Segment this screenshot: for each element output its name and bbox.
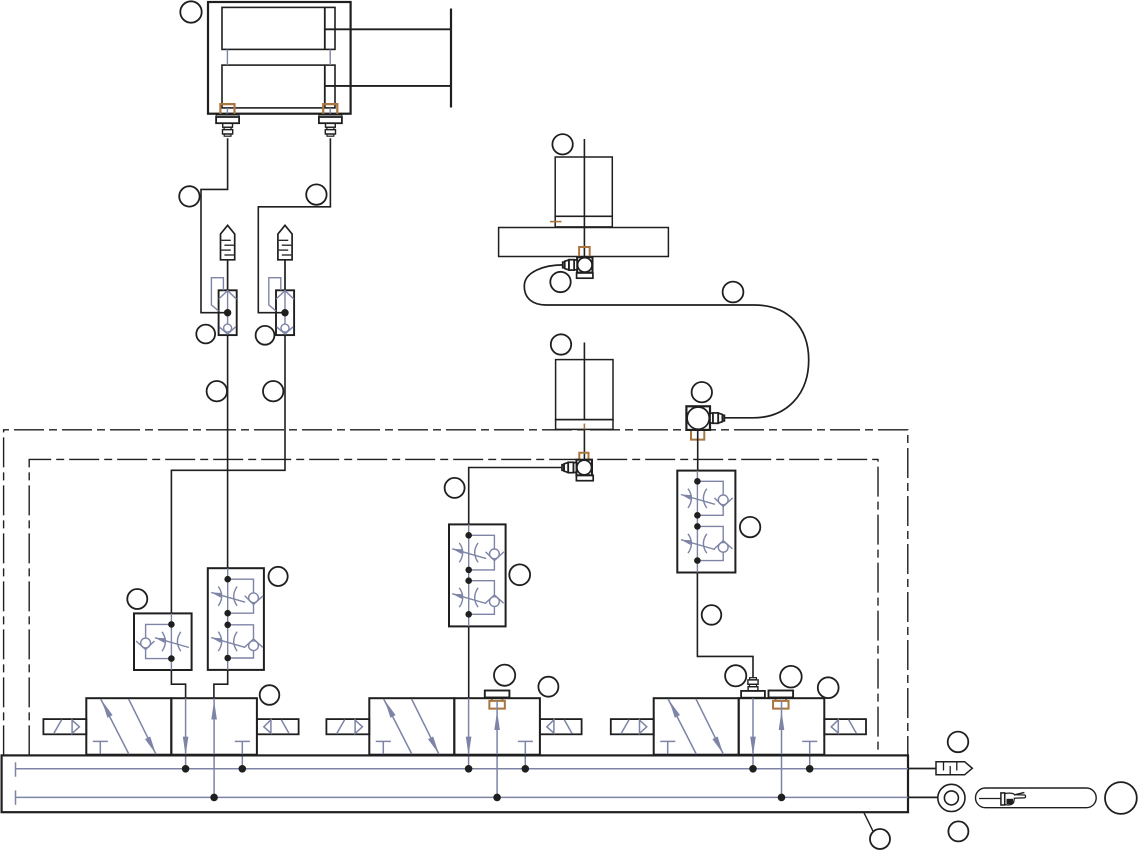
cylinder CYL1 piston rods and yoke plate [325,9,451,108]
wire bus1 to silencer S3 [908,768,936,770]
CYL2 port bracket [579,247,590,257]
CYL1 right port push-in fitting F2 [319,115,342,136]
junction dots on bus 1 [182,765,814,773]
elbow fitting EL1 under CYL2 plate [563,257,593,278]
wire FC3 to valve V2 port A [468,626,470,698]
CYL1 left port thread bracket [220,104,234,114]
CYL1 right port thread bracket [323,104,337,114]
outer enclosure boundary (dash-dot) [4,430,908,756]
wire CYL1 left port to quick-exhaust valve QE1 [201,138,228,312]
blanking plug P2 on valve V3 port B [769,691,794,709]
wire EL3 to flow control FC4 [697,430,699,471]
supply port fitting F4 (double circle) [938,784,965,811]
tube EL2 to valve V2 port A [469,468,562,525]
flow control valve FC1 (single, meter for QE2 line) [134,613,192,670]
leader line to balloon 27 [864,812,873,831]
elbow fitting EL2 [562,460,593,481]
push-in fitting F3 on valve V3 port A [741,678,765,698]
wire FC4 to valve V3 fitting [697,573,753,678]
manifold base plate [2,755,908,812]
wire FC2 to valve V1 port B [214,670,228,698]
wire FC1 to valve V1 port A [171,670,185,698]
tube EL1 to EL3 (curved hose) [524,265,808,418]
callout tag with pointing hand [976,788,1097,808]
silencer S2 (on QE2 exhaust) [278,225,292,259]
EL3 port bracket [691,431,704,440]
silencer S3 (manifold exhaust) [936,762,972,775]
blanking plug P1 on valve V2 port B [485,691,510,709]
cylinder CYL3 (compact cylinder) [556,343,613,430]
flow control valve FC4 (dual, V3 line) [677,471,735,573]
wire CYL1 right port to quick-exhaust valve QE2 [258,138,330,312]
CYL3 brown port tick [583,424,585,430]
wire S2 to QE2 [284,260,286,291]
wire S1 to QE1 [227,260,229,291]
silencer S1 (on QE1 exhaust) [221,225,235,259]
wire CYL3 to elbow EL2 [583,429,585,460]
directional valve V1 (5/2 double solenoid) [43,698,298,797]
inner enclosure boundary (dash-dot) [29,459,878,755]
quick-exhaust valve QE1 [211,278,236,335]
cylinder CYL2 (compact cylinder on mounting plate) [499,139,669,257]
manifold bus line 1 (exhaust rail) [16,762,909,776]
wire QE1 to flow control FC2 (A-line) [227,335,229,568]
wire QE2 to flow control FC1 (B-line) [171,335,285,613]
manifold bus line 2 (supply rail) [16,790,909,804]
CYL2 brown tick [550,221,562,223]
junction dots on bus 2 [210,794,785,802]
CYL1 left port push-in fitting F1 [216,115,239,136]
flow control valve FC3 (dual, V2 line) [449,524,506,626]
EL2 port bracket [579,453,588,460]
elbow fitting EL3 (bulkhead elbow on enclosure) [686,406,724,430]
flow control valve FC2 (dual, QE1 line) [208,568,264,670]
cylinder CYL1 body (dual-rod cylinder) [208,2,351,114]
directional valve V2 (5/2 double solenoid) [326,698,581,797]
quick-exhaust valve QE2 [269,278,294,335]
directional valve V3 (5/2 double solenoid) [611,698,866,797]
wire bus2 to supply fitting F4 [908,796,938,798]
